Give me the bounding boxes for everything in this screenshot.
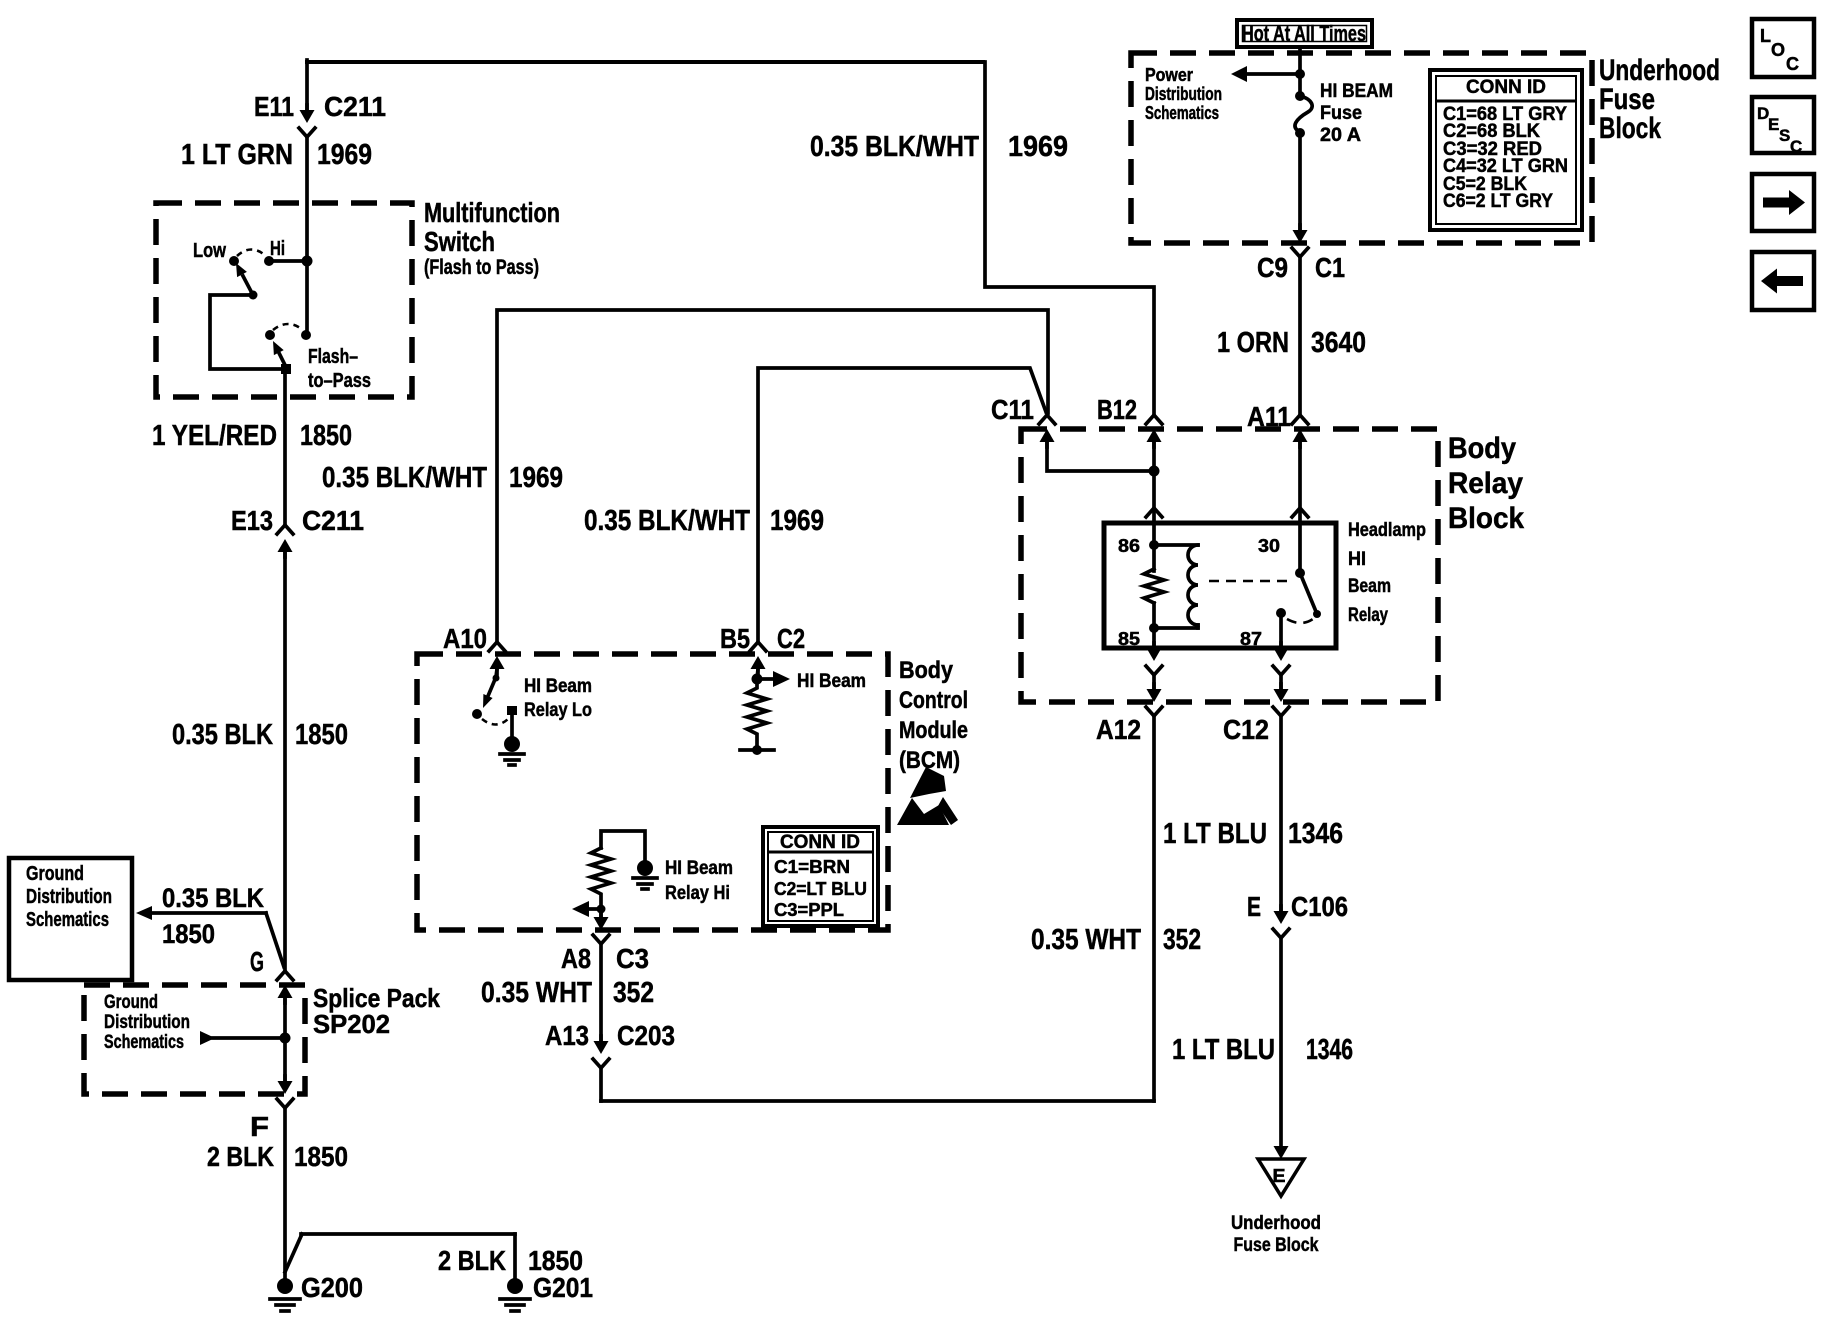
svg-text:Fuse Block: Fuse Block: [1234, 1235, 1319, 1256]
svg-text:85: 85: [1118, 629, 1140, 649]
svg-text:Underhood: Underhood: [1231, 1213, 1321, 1234]
svg-text:Module: Module: [899, 717, 968, 744]
svg-text:Beam: Beam: [1348, 576, 1391, 597]
svg-text:0.35 BLK: 0.35 BLK: [172, 719, 273, 751]
svg-text:C1=BRN: C1=BRN: [774, 857, 850, 877]
svg-text:C: C: [1786, 54, 1799, 74]
svg-text:C1: C1: [1315, 252, 1345, 283]
svg-text:C12: C12: [1223, 714, 1269, 745]
svg-text:E: E: [1768, 115, 1779, 134]
svg-text:0.35 WHT: 0.35 WHT: [1031, 924, 1141, 956]
svg-text:L: L: [1760, 26, 1771, 46]
svg-text:30: 30: [1258, 536, 1280, 556]
svg-text:CONN ID: CONN ID: [1466, 77, 1546, 98]
svg-text:HI Beam: HI Beam: [524, 676, 592, 697]
svg-text:0.35 WHT: 0.35 WHT: [481, 977, 592, 1009]
svg-text:1850: 1850: [162, 919, 215, 949]
svg-text:1850: 1850: [294, 1141, 348, 1172]
svg-text:20 A: 20 A: [1320, 125, 1361, 146]
svg-text:Schematics: Schematics: [104, 1032, 184, 1053]
svg-text:G200: G200: [301, 1272, 363, 1303]
svg-text:Schematics: Schematics: [1145, 103, 1219, 123]
svg-text:Body: Body: [899, 657, 954, 684]
svg-text:C3: C3: [616, 943, 649, 974]
svg-text:87: 87: [1240, 629, 1262, 649]
svg-text:Relay Lo: Relay Lo: [524, 700, 592, 721]
svg-text:C203: C203: [617, 1020, 675, 1051]
svg-text:1346: 1346: [1288, 818, 1343, 850]
svg-text:HI BEAM: HI BEAM: [1320, 81, 1393, 102]
svg-text:1969: 1969: [770, 505, 824, 537]
svg-text:1850: 1850: [300, 420, 352, 452]
svg-text:HI Beam: HI Beam: [797, 671, 866, 692]
svg-text:Ground: Ground: [104, 992, 158, 1013]
svg-text:C11: C11: [991, 394, 1034, 425]
svg-text:2 BLK: 2 BLK: [438, 1245, 506, 1276]
svg-text:Relay: Relay: [1448, 467, 1523, 500]
svg-text:C211: C211: [302, 505, 364, 536]
svg-text:1850: 1850: [295, 719, 348, 751]
svg-text:SP202: SP202: [313, 1009, 390, 1039]
svg-text:Switch: Switch: [424, 226, 495, 257]
svg-text:E11: E11: [254, 91, 294, 122]
svg-text:O: O: [1771, 40, 1785, 60]
svg-text:1969: 1969: [509, 462, 563, 494]
svg-text:HI: HI: [1348, 549, 1366, 570]
svg-text:A8: A8: [561, 943, 591, 974]
svg-text:Power: Power: [1145, 65, 1193, 85]
svg-text:Distribution: Distribution: [26, 886, 112, 908]
svg-text:1 YEL/RED: 1 YEL/RED: [152, 420, 277, 452]
svg-text:S: S: [1779, 126, 1790, 145]
svg-text:0.35 BLK/WHT: 0.35 BLK/WHT: [584, 505, 750, 537]
svg-text:Block: Block: [1448, 502, 1524, 535]
svg-text:Relay: Relay: [1348, 605, 1388, 626]
svg-text:C: C: [1790, 137, 1802, 156]
svg-text:0.35 BLK/WHT: 0.35 BLK/WHT: [322, 462, 487, 494]
svg-text:1969: 1969: [1008, 131, 1068, 163]
svg-text:A11: A11: [1247, 401, 1291, 432]
svg-text:1 LT BLU: 1 LT BLU: [1163, 818, 1267, 850]
svg-text:(BCM): (BCM): [899, 747, 960, 774]
svg-text:352: 352: [613, 977, 654, 1009]
svg-text:to–Pass: to–Pass: [308, 370, 371, 392]
svg-text:1969: 1969: [317, 139, 372, 171]
svg-text:G201: G201: [533, 1272, 593, 1303]
svg-text:Hi: Hi: [270, 238, 285, 260]
svg-text:Hot At All Times: Hot At All Times: [1242, 21, 1366, 46]
svg-text:G: G: [250, 946, 264, 977]
svg-text:86: 86: [1118, 536, 1140, 556]
svg-text:(Flash to Pass): (Flash to Pass): [424, 256, 539, 279]
svg-text:Ground: Ground: [26, 863, 84, 885]
svg-text:B12: B12: [1097, 394, 1137, 425]
svg-text:Body: Body: [1448, 432, 1516, 465]
svg-text:A12: A12: [1096, 714, 1141, 745]
svg-text:A13: A13: [545, 1020, 589, 1051]
svg-text:C211: C211: [324, 91, 386, 122]
svg-text:1850: 1850: [528, 1245, 583, 1276]
svg-text:HI Beam: HI Beam: [665, 858, 733, 879]
svg-text:Control: Control: [899, 687, 968, 714]
svg-text:0.35 BLK/WHT: 0.35 BLK/WHT: [810, 131, 979, 163]
svg-text:Relay Hi: Relay Hi: [665, 883, 730, 904]
svg-text:1 LT GRN: 1 LT GRN: [181, 139, 293, 171]
svg-text:0.35 BLK: 0.35 BLK: [162, 883, 264, 913]
svg-text:2 BLK: 2 BLK: [207, 1141, 274, 1172]
svg-text:1346: 1346: [1306, 1034, 1353, 1066]
svg-text:F: F: [250, 1111, 269, 1142]
svg-text:E: E: [1247, 891, 1261, 922]
svg-text:3640: 3640: [1311, 327, 1366, 359]
svg-text:A10: A10: [443, 623, 487, 654]
svg-text:C2: C2: [777, 623, 805, 654]
svg-text:Distribution: Distribution: [104, 1012, 190, 1033]
svg-text:Low: Low: [193, 240, 226, 262]
svg-text:Fuse: Fuse: [1320, 103, 1362, 124]
svg-text:CONN ID: CONN ID: [780, 832, 860, 853]
svg-text:C6=2 LT GRY: C6=2 LT GRY: [1443, 191, 1553, 212]
svg-text:E13: E13: [231, 505, 273, 536]
svg-text:Multifunction: Multifunction: [424, 197, 560, 228]
svg-text:C106: C106: [1291, 891, 1348, 922]
svg-text:1 ORN: 1 ORN: [1217, 327, 1289, 359]
svg-text:C3=PPL: C3=PPL: [774, 900, 844, 920]
svg-text:C2=LT BLU: C2=LT BLU: [774, 879, 867, 899]
svg-text:352: 352: [1163, 924, 1201, 956]
svg-text:E: E: [1273, 1166, 1286, 1186]
svg-text:Schematics: Schematics: [26, 909, 109, 931]
svg-text:B5: B5: [720, 623, 750, 654]
svg-text:Flash–: Flash–: [308, 346, 358, 368]
svg-text:1 LT BLU: 1 LT BLU: [1172, 1034, 1275, 1066]
svg-text:C9: C9: [1257, 252, 1288, 283]
svg-text:Distribution: Distribution: [1145, 84, 1222, 104]
svg-text:Block: Block: [1599, 112, 1661, 145]
svg-text:Headlamp: Headlamp: [1348, 520, 1426, 541]
